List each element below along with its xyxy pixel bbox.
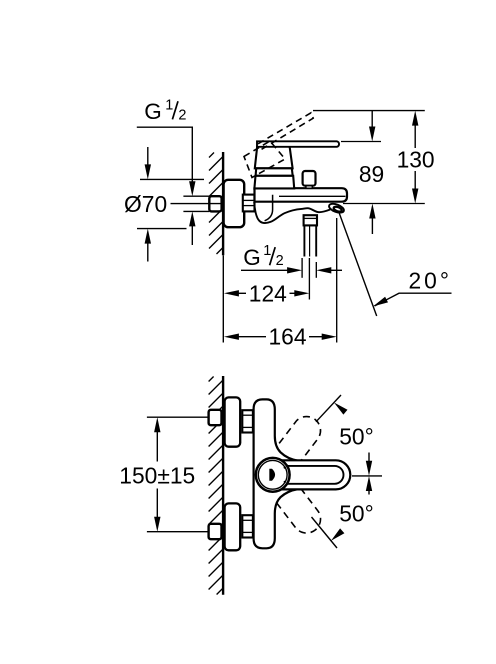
body underside contour	[254, 202, 330, 223]
lever outer (bottom view)	[261, 460, 351, 489]
aerator mousseur at 20 deg (top view)	[328, 202, 345, 214]
handle collar	[256, 168, 293, 176]
svg-text:G: G	[243, 245, 261, 270]
150 extension line top	[147, 416, 209, 418]
svg-text:1: 1	[263, 243, 271, 259]
dashed lever rotated up 50 deg	[262, 417, 321, 484]
svg-text:124: 124	[249, 280, 287, 306]
faucet body cover (bottom view)	[254, 399, 299, 548]
wall hatching (top view)	[209, 153, 223, 255]
escutcheon bottom (bottom view)	[225, 503, 241, 550]
svg-text:164: 164	[268, 324, 306, 350]
svg-text:50°: 50°	[339, 501, 373, 527]
svg-text:89: 89	[359, 161, 384, 187]
wall face line (bottom view)	[222, 376, 224, 595]
svg-text:2: 2	[178, 107, 186, 123]
body inner edge	[265, 195, 273, 221]
G1/2 bottom dimension	[241, 269, 289, 271]
svg-text:G: G	[144, 99, 162, 124]
lever handle skirt (top view)	[255, 147, 293, 169]
svg-text:Ø70: Ø70	[124, 191, 167, 217]
G1/2 top leader	[137, 127, 193, 183]
faucet body barrel (top view)	[255, 188, 348, 202]
wall face line (top view)	[222, 152, 224, 255]
hex nut bottom (bottom view)	[242, 515, 253, 537]
O70 leader line through fitting	[171, 203, 224, 205]
hose pipe extension lines	[301, 258, 303, 278]
wall hatching (bottom view)	[209, 377, 224, 595]
aerator extension line	[336, 218, 338, 343]
cartridge cap circle	[256, 458, 290, 492]
20 deg slant extension line	[339, 211, 377, 316]
svg-text:50°: 50°	[339, 424, 373, 450]
lever blade (top view)	[257, 141, 339, 147]
G1/2 supply square bottom (bottom view)	[209, 524, 222, 539]
G1/2 bottom label	[243, 243, 283, 270]
svg-text:130: 130	[397, 147, 435, 173]
svg-text:150±15: 150±15	[119, 462, 195, 488]
wall extension line down to 124/164 dimensions	[222, 255, 224, 342]
shower hose union nut (top view)	[304, 215, 317, 225]
shower hose nipple pipe	[303, 225, 305, 256]
dashed raised lever blade (top view)	[258, 113, 313, 150]
dashed raised lever skirt	[244, 141, 285, 178]
G1/2 supply square fitting (top view)	[209, 196, 221, 211]
escutcheon O70 (top view)	[224, 180, 245, 227]
diverter knob (top view)	[303, 171, 316, 186]
G1/2 fitting extension lines	[183, 195, 209, 197]
lever inner loop	[263, 466, 344, 484]
150 extension line bottom	[147, 531, 209, 533]
dashed lever rotated down 50 deg	[262, 466, 321, 533]
svg-text:2: 2	[276, 253, 284, 269]
escutcheon top (bottom view)	[225, 397, 241, 446]
svg-text:20°: 20°	[409, 268, 452, 294]
hex nut top (bottom view)	[242, 410, 253, 432]
body seam line	[279, 195, 346, 197]
lever axis extension line	[352, 475, 382, 477]
indicator mark	[269, 469, 275, 481]
hex connection nut (top view)	[243, 195, 255, 212]
G1/2 supply square top (bottom view)	[209, 410, 222, 425]
cartridge base	[254, 176, 294, 189]
svg-text:1: 1	[165, 97, 173, 113]
G1/2 top label	[144, 97, 186, 123]
